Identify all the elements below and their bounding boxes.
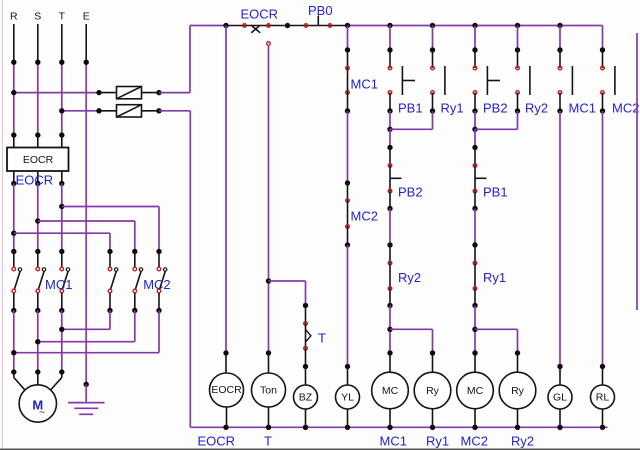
svg-text:GL: GL xyxy=(553,392,567,404)
svg-text:MC1: MC1 xyxy=(45,277,72,292)
svg-text:EOCR: EOCR xyxy=(241,7,279,22)
svg-text:Ton: Ton xyxy=(260,385,277,397)
svg-text:Ry1: Ry1 xyxy=(441,101,464,116)
svg-text:PB2: PB2 xyxy=(398,185,423,200)
svg-text:YL: YL xyxy=(341,392,354,404)
svg-text:PB2: PB2 xyxy=(483,101,508,116)
svg-text:MC1: MC1 xyxy=(569,101,596,116)
svg-text:T: T xyxy=(318,331,326,346)
svg-text:MC2: MC2 xyxy=(351,209,378,224)
svg-text:EOCR: EOCR xyxy=(23,154,54,166)
svg-text:E: E xyxy=(83,11,90,23)
svg-text:PB0: PB0 xyxy=(308,3,333,18)
svg-text:BZ: BZ xyxy=(299,392,313,404)
svg-text:S: S xyxy=(34,11,41,23)
svg-text:MC2: MC2 xyxy=(612,101,639,116)
svg-text:Ry1: Ry1 xyxy=(426,434,449,449)
svg-text:Ry2: Ry2 xyxy=(398,270,421,285)
svg-text:MC2: MC2 xyxy=(461,434,488,449)
svg-text:EOCR: EOCR xyxy=(198,434,236,449)
svg-text:MC: MC xyxy=(467,385,484,397)
svg-text:Ry2: Ry2 xyxy=(525,101,548,116)
svg-text:EOCR: EOCR xyxy=(16,173,54,188)
svg-text:Ry: Ry xyxy=(426,385,440,397)
svg-text:RL: RL xyxy=(596,392,610,404)
svg-text:Ry2: Ry2 xyxy=(511,434,534,449)
svg-text:MC1: MC1 xyxy=(380,434,407,449)
svg-text:T: T xyxy=(264,434,272,449)
svg-text:R: R xyxy=(10,11,18,23)
svg-text:MC2: MC2 xyxy=(143,277,170,292)
svg-text:T: T xyxy=(59,11,66,23)
svg-text:MC1: MC1 xyxy=(351,77,378,92)
svg-text:EOCR: EOCR xyxy=(211,384,242,396)
svg-text:Ry1: Ry1 xyxy=(483,270,506,285)
svg-text:PB1: PB1 xyxy=(398,101,423,116)
svg-text:~: ~ xyxy=(39,407,45,419)
svg-text:PB1: PB1 xyxy=(483,185,508,200)
svg-text:MC: MC xyxy=(382,385,399,397)
svg-text:Ry: Ry xyxy=(511,385,525,397)
